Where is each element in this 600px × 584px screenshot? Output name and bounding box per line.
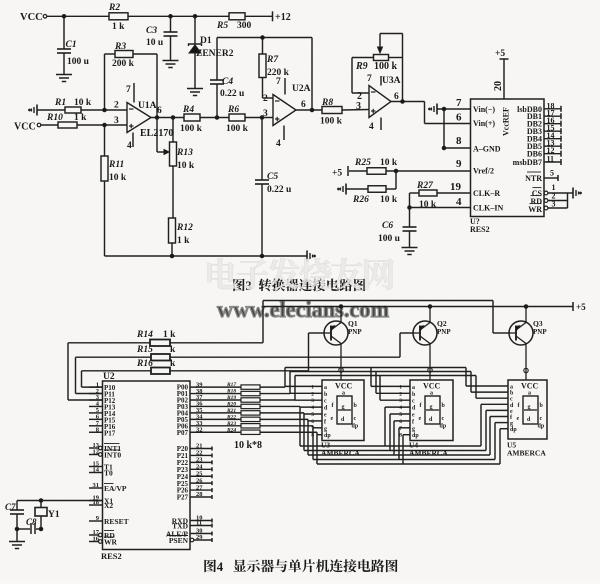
wire crystal ground net [17, 528, 30, 530]
op-amp U3A [369, 86, 391, 118]
junction U2A output [310, 108, 314, 112]
wire R16 to Q1 base [170, 370, 309, 372]
potentiometer R13 [172, 118, 174, 143]
junction CLK-IN/C6 [408, 206, 412, 210]
wire feedback vertical [311, 38, 313, 111]
wire R27 to CLK-R [437, 192, 471, 194]
junction Q3 emitter [524, 305, 528, 309]
ground at R26 [345, 184, 347, 195]
caption figure 4 [204, 559, 216, 572]
resistor R25 [349, 170, 367, 172]
wire R22 to display segment bus [260, 418, 308, 420]
resistor R5 [229, 13, 245, 20]
capacitor C3 [170, 16, 172, 31]
junction Q1 emitter [339, 305, 343, 309]
potentiometer R9 [351, 58, 353, 94]
resistor R2 [109, 13, 128, 20]
junction Vin- net [442, 107, 446, 111]
transistor Q1 PNP [324, 321, 348, 345]
wire R17 to display segment bus [260, 386, 285, 388]
caption figure 3 [233, 279, 244, 292]
resistor R10 [41, 124, 58, 126]
wire R1 to U1 pin2 [81, 109, 127, 111]
ground at Vin- input [436, 104, 438, 115]
junction output/R13 [171, 116, 175, 120]
wire R14 to P12 [68, 342, 150, 344]
resistor R7 [262, 38, 264, 55]
wire R19 to display segment bus [260, 399, 295, 401]
wire U3A output [391, 101, 425, 103]
resistor R6 [229, 114, 245, 121]
wire X1 to crystal [17, 500, 103, 502]
pin 4 of U3A [380, 118, 382, 131]
ground under C6 [402, 247, 418, 249]
ground under crystal [9, 541, 25, 543]
pin 3 P12 [89, 399, 103, 401]
op-amp U2A [273, 95, 296, 126]
wiper of R9 [402, 34, 404, 102]
pin 9 RESET [89, 520, 103, 522]
pin 16 WR [89, 541, 99, 543]
resistor R26 [346, 188, 368, 190]
junction node pin2 [103, 108, 107, 112]
junction R25/R26 [394, 169, 398, 173]
ADC U7 RES2 body [471, 99, 545, 217]
pin 7 of U3A [380, 76, 382, 86]
pin 4 of U1A [132, 133, 134, 148]
wire U2A output to R8 [296, 109, 322, 111]
wire R25 to Vref/2 pin9 [386, 170, 471, 172]
junction R9/output [401, 100, 405, 104]
display U4 AMBERCA body [410, 380, 453, 441]
pin 4 of U2A [283, 126, 285, 141]
pin 2 P11 [89, 393, 103, 395]
pin 14 T0 [89, 472, 103, 474]
junction C5 top [260, 116, 264, 120]
microcontroller U2 body [103, 381, 191, 550]
pin 1 P10 [89, 386, 103, 388]
wire R15 to Q2 base [170, 356, 400, 358]
wire R5 to +12 [245, 15, 272, 17]
junction C5/rail [260, 254, 264, 258]
junction at C1 [62, 14, 66, 18]
junction Y1 top [39, 499, 43, 503]
7-segment glyph of U4 [425, 396, 440, 424]
wire to A-GND pin [444, 147, 471, 149]
pin 15 T1 [89, 466, 103, 468]
ground at CS [572, 188, 574, 199]
pin 8 P17 [89, 431, 103, 433]
pin 6 P15 [89, 418, 103, 420]
pin 18 X2 [89, 504, 103, 506]
transistor Q2 PNP [413, 321, 437, 345]
pin 7 of U1A [133, 83, 135, 103]
pin 12 INT0 [89, 454, 99, 456]
wire R21 to display segment bus [260, 412, 304, 414]
capacitor C6 [409, 208, 411, 227]
pin 20 VccREF supply [503, 59, 505, 99]
wire Vin- to A-GND [443, 109, 445, 148]
resistor R1 [37, 109, 65, 111]
ground under C3 [163, 60, 179, 62]
wire VCC rail to R2 [47, 15, 109, 17]
wire R24 to display segment bus [260, 431, 317, 433]
wire R20 to display segment bus [260, 405, 300, 407]
wire output down to Vin+ [424, 102, 426, 124]
junction R7 top [261, 36, 265, 40]
pin 17 RD [89, 534, 99, 536]
junction at D1 [193, 14, 197, 18]
node +12 [272, 11, 274, 21]
7-segment glyph of U3 [337, 396, 352, 424]
ground under C1 [56, 74, 72, 76]
pin 19 X1 [89, 500, 103, 502]
pin 5 P14 [89, 412, 103, 414]
wire bottom rail of input stage [105, 255, 308, 257]
op-amp U1A EL2170 [127, 103, 151, 133]
wire R18 to display segment bus [260, 393, 290, 395]
wire R26 to junction [386, 188, 396, 190]
pin 7 P16 [89, 425, 103, 427]
pin 13 INT1 [89, 447, 99, 449]
transistor Q3 PNP [509, 321, 533, 345]
capacitor C5 [261, 118, 263, 180]
resistor R11 [104, 125, 106, 156]
wire CS/RD/WR common [567, 193, 569, 208]
pin 7 of U2A [284, 78, 286, 95]
wire R10 to U1 pin3 [77, 124, 127, 126]
resistor R4 [184, 114, 200, 121]
resistor R12 [169, 218, 176, 243]
junction R12/rail [170, 254, 174, 258]
wire feedback top of U2A [217, 37, 312, 39]
wire R8 to U3A pin3 [342, 109, 369, 112]
ground at bottom rail [306, 251, 308, 262]
junction C4 bottom [215, 116, 219, 120]
resistor R8 [322, 107, 342, 114]
junction Q2 emitter [428, 305, 432, 309]
wire R2 to R5 [128, 15, 229, 17]
wire to CLK-IN pin [410, 207, 471, 209]
7-segment glyph of U5 [523, 396, 538, 424]
pin 4 P13 [89, 405, 103, 407]
display U5 AMBERCA body [508, 380, 547, 439]
capacitor C4 [216, 38, 218, 80]
resistor R3 (feedback) [104, 54, 106, 110]
junction A-GND [442, 146, 446, 150]
node +5 rail [263, 306, 573, 308]
junction node pin3 [103, 123, 107, 127]
wire U1A output to R4 [151, 117, 184, 119]
display U3 AMBERCA body [322, 380, 364, 441]
wire R23 to display segment bus [260, 425, 313, 427]
junction at C3 [169, 14, 173, 18]
watermark Chinese characters [208, 258, 238, 289]
diode D1 ZENER2 [194, 16, 196, 44]
wire R14 to Q3 base (top route) [170, 342, 263, 344]
wire R4 to R6 [200, 117, 229, 119]
ground at signal input [36, 105, 38, 116]
wire R6 to U2 pin3 [245, 117, 273, 119]
ground under D1 [187, 88, 203, 90]
wiper arm of R13 [156, 118, 158, 153]
pin 31 EA/VP [89, 487, 103, 489]
junction output/R3 [155, 116, 159, 120]
wire R15 to P11 [76, 356, 152, 358]
crystal Y1 [40, 501, 42, 508]
pin 2 wire of U3A [352, 92, 369, 94]
wire ground to Vin- [437, 108, 471, 110]
wire R16 to P10 [82, 370, 152, 372]
capacitor C1 [63, 16, 65, 48]
wire R27 left to CLK-IN net [410, 192, 420, 194]
